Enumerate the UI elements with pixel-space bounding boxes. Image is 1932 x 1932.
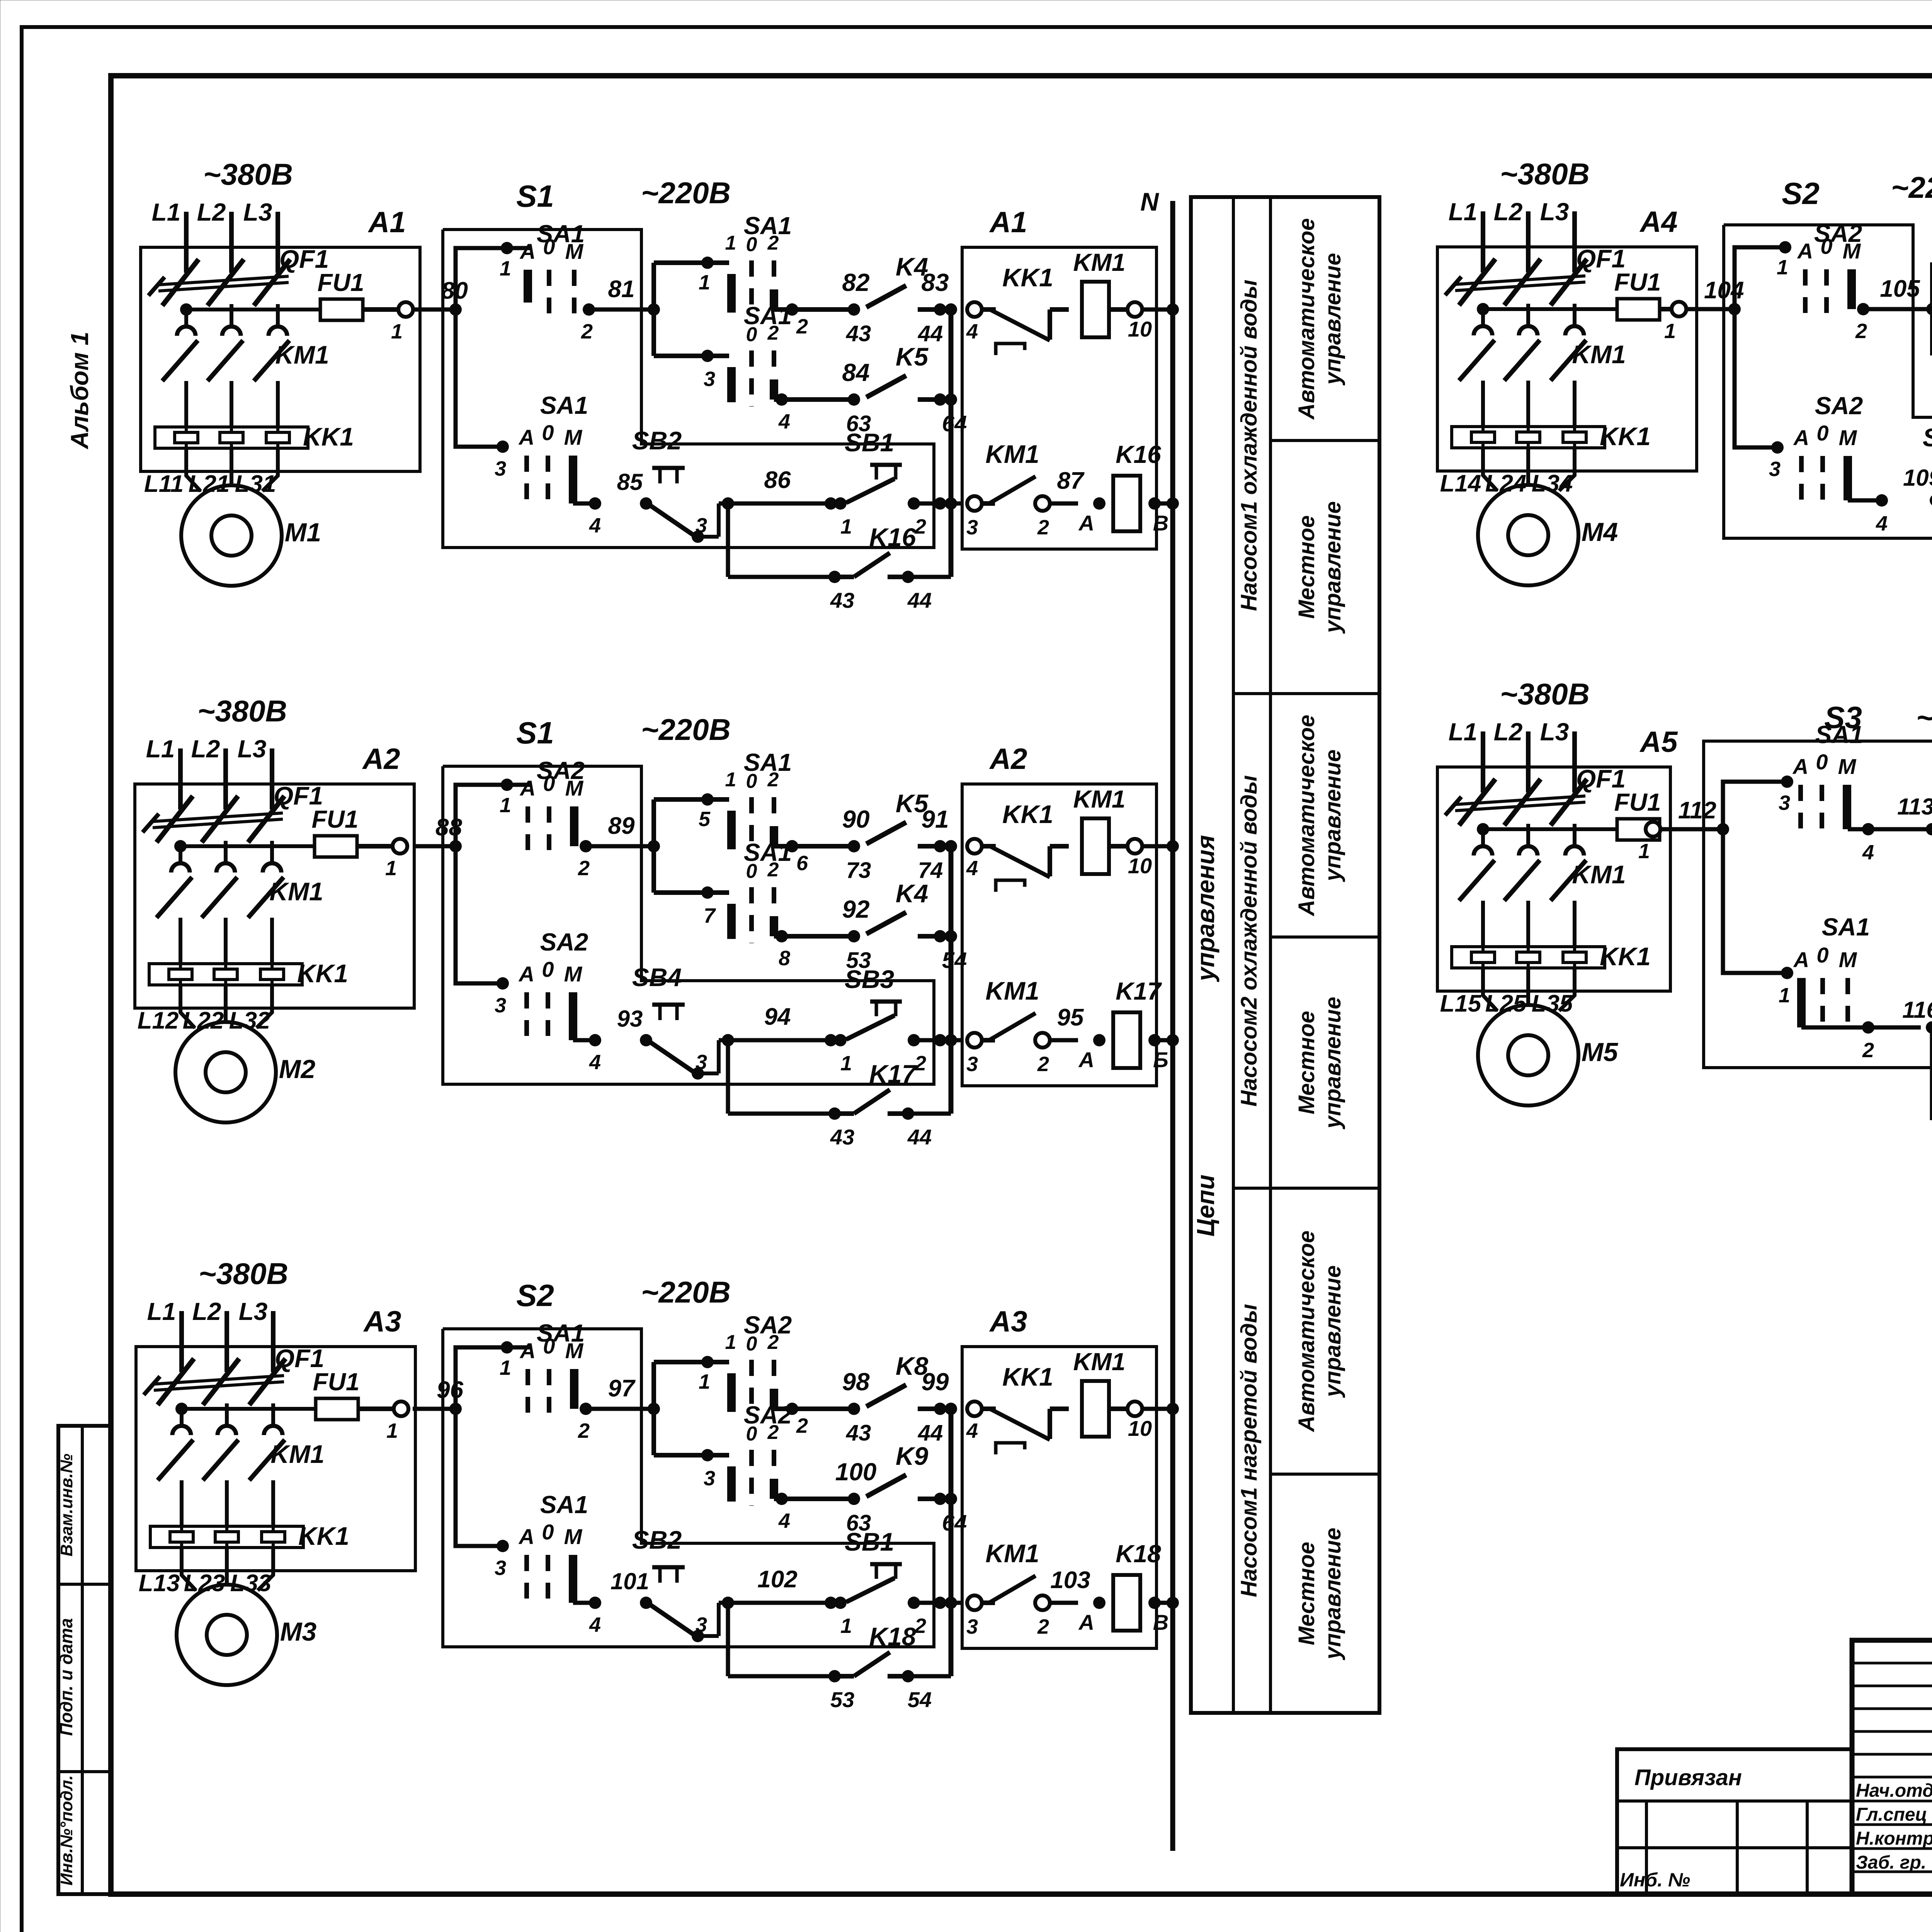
svg-text:84: 84	[842, 359, 869, 386]
svg-text:1: 1	[500, 257, 511, 280]
svg-text:L2: L2	[1494, 718, 1523, 746]
svg-text:S1: S1	[516, 179, 554, 213]
svg-text:44: 44	[907, 588, 932, 612]
svg-text:~220В: ~220В	[641, 176, 731, 210]
svg-text:SA2: SA2	[744, 1311, 792, 1339]
svg-text:FU1: FU1	[1614, 268, 1661, 296]
svg-text:M: M	[1839, 425, 1857, 450]
svg-text:KK1: KK1	[1600, 942, 1651, 971]
svg-text:L24: L24	[1485, 470, 1527, 497]
svg-text:98: 98	[842, 1368, 870, 1396]
svg-text:В: В	[1153, 1610, 1168, 1634]
svg-text:~220В: ~220В	[641, 713, 731, 747]
svg-text:FU1: FU1	[313, 1368, 360, 1396]
svg-text:1: 1	[1779, 984, 1790, 1007]
svg-text:2: 2	[914, 1052, 926, 1075]
svg-text:43: 43	[830, 588, 854, 612]
svg-text:3: 3	[696, 514, 707, 537]
svg-text:Насосом1 нагретой воды: Насосом1 нагретой воды	[1236, 1304, 1262, 1597]
svg-text:1: 1	[500, 794, 511, 817]
svg-text:43: 43	[846, 321, 871, 346]
svg-text:SA1: SA1	[540, 1491, 588, 1519]
svg-text:Альбом 1: Альбом 1	[66, 332, 94, 449]
svg-text:A: A	[518, 1524, 534, 1549]
svg-text:управление: управление	[1320, 750, 1345, 883]
svg-text:SB4: SB4	[632, 963, 682, 992]
svg-text:81: 81	[608, 276, 635, 303]
svg-text:2: 2	[796, 315, 808, 338]
svg-text:86: 86	[764, 467, 791, 493]
svg-text:Б: Б	[1153, 1048, 1168, 1072]
svg-text:A2: A2	[989, 743, 1027, 776]
svg-text:KK1: KK1	[1002, 263, 1053, 292]
svg-text:M: M	[564, 962, 583, 986]
svg-text:3: 3	[704, 367, 715, 391]
svg-text:3: 3	[704, 1467, 715, 1490]
svg-text:KK1: KK1	[298, 1522, 349, 1550]
svg-text:0: 0	[542, 957, 554, 981]
svg-text:A3: A3	[363, 1305, 401, 1338]
svg-text:A2: A2	[362, 743, 400, 776]
svg-text:3: 3	[696, 1613, 707, 1636]
svg-text:SB3: SB3	[845, 965, 894, 993]
svg-text:116: 116	[1902, 997, 1932, 1023]
svg-text:L1: L1	[152, 198, 181, 226]
svg-text:4: 4	[589, 514, 601, 537]
svg-text:A1: A1	[989, 206, 1027, 239]
svg-text:M5: M5	[1582, 1037, 1619, 1067]
svg-text:Насосом1 охлажденной воды: Насосом1 охлажденной воды	[1236, 280, 1262, 611]
svg-text:Автоматическое: Автоматическое	[1294, 715, 1319, 917]
svg-text:~380В: ~380В	[203, 157, 293, 191]
svg-text:97: 97	[608, 1375, 636, 1402]
svg-text:L1: L1	[1449, 198, 1478, 226]
svg-text:SA2: SA2	[744, 1401, 792, 1429]
svg-text:управление: управление	[1320, 997, 1345, 1130]
svg-text:KM1: KM1	[1073, 785, 1125, 813]
svg-text:0: 0	[1816, 750, 1828, 774]
svg-text:8: 8	[779, 947, 790, 970]
svg-text:101: 101	[611, 1568, 649, 1594]
svg-text:M2: M2	[279, 1054, 316, 1084]
svg-text:управления: управления	[1192, 835, 1219, 982]
svg-text:M1: M1	[285, 518, 321, 547]
svg-text:1: 1	[1664, 320, 1676, 343]
svg-text:1: 1	[840, 1614, 852, 1638]
svg-text:M: M	[1839, 947, 1857, 972]
svg-text:L33: L33	[230, 1570, 272, 1597]
svg-text:A1: A1	[367, 206, 406, 239]
svg-text:L1: L1	[147, 1298, 176, 1325]
svg-text:113: 113	[1897, 794, 1932, 820]
svg-text:1: 1	[725, 1331, 736, 1354]
svg-text:SA1: SA1	[1815, 721, 1864, 748]
svg-text:L23: L23	[184, 1570, 225, 1597]
svg-text:A4: A4	[1639, 206, 1677, 238]
svg-text:4: 4	[589, 1613, 601, 1636]
svg-text:1: 1	[699, 271, 710, 294]
svg-text:112: 112	[1678, 797, 1716, 824]
svg-text:управление: управление	[1320, 1265, 1345, 1398]
svg-text:A: A	[518, 962, 534, 986]
svg-text:SA1: SA1	[744, 748, 792, 776]
svg-text:0: 0	[542, 420, 554, 445]
svg-text:3: 3	[966, 1053, 978, 1076]
svg-text:1: 1	[725, 232, 736, 254]
svg-text:KM1: KM1	[1073, 248, 1125, 276]
svg-text:управление: управление	[1320, 1528, 1345, 1661]
svg-text:4: 4	[589, 1051, 601, 1074]
svg-text:A: A	[519, 776, 536, 800]
svg-text:2: 2	[581, 320, 593, 343]
svg-text:2: 2	[796, 1414, 808, 1437]
svg-text:Подп. и дата: Подп. и дата	[56, 1618, 76, 1736]
svg-text:L3: L3	[243, 198, 272, 226]
svg-text:2: 2	[1037, 1053, 1049, 1076]
svg-text:K5: K5	[896, 342, 929, 371]
svg-text:A: A	[1792, 754, 1808, 779]
svg-text:0: 0	[1816, 421, 1828, 445]
svg-text:L1: L1	[1449, 718, 1478, 746]
svg-text:KK1: KK1	[1600, 422, 1651, 451]
svg-text:Местное: Местное	[1294, 515, 1319, 619]
svg-text:4: 4	[966, 857, 978, 880]
svg-text:A: A	[1797, 239, 1813, 263]
svg-text:102: 102	[757, 1566, 797, 1593]
svg-text:0: 0	[1816, 943, 1828, 967]
svg-text:KM1: KM1	[270, 1440, 324, 1468]
svg-text:93: 93	[617, 1006, 643, 1032]
svg-text:управление: управление	[1320, 501, 1345, 634]
svg-text:3: 3	[966, 516, 978, 539]
svg-text:L21: L21	[189, 471, 230, 497]
svg-text:99: 99	[921, 1368, 949, 1396]
svg-text:SA2: SA2	[1815, 392, 1863, 420]
svg-text:K18: K18	[1116, 1540, 1161, 1568]
svg-text:91: 91	[921, 805, 949, 833]
svg-text:96: 96	[437, 1377, 463, 1403]
svg-text:10: 10	[1128, 1416, 1152, 1440]
svg-text:10: 10	[1128, 854, 1152, 878]
svg-text:L3: L3	[238, 735, 267, 763]
svg-text:A: A	[518, 425, 534, 449]
svg-text:~220В: ~220В	[1916, 701, 1932, 735]
svg-text:A: A	[1078, 1048, 1094, 1072]
svg-text:В: В	[1153, 511, 1168, 535]
svg-text:L1: L1	[146, 735, 175, 763]
svg-text:6: 6	[796, 852, 808, 875]
svg-text:SA1: SA1	[744, 212, 792, 240]
svg-text:Инв.№°подл.: Инв.№°подл.	[57, 1775, 76, 1886]
svg-text:S2: S2	[516, 1278, 554, 1313]
svg-text:KM1: KM1	[985, 976, 1039, 1005]
svg-text:L32: L32	[229, 1007, 270, 1034]
svg-text:L2: L2	[1494, 198, 1523, 226]
svg-text:3: 3	[495, 457, 506, 480]
svg-text:1: 1	[840, 515, 852, 538]
svg-text:3: 3	[495, 1556, 506, 1580]
svg-text:M: M	[564, 1524, 583, 1549]
svg-text:7: 7	[704, 904, 716, 927]
svg-text:4: 4	[966, 1419, 978, 1442]
svg-text:K4: K4	[896, 879, 928, 908]
svg-text:L3: L3	[1540, 198, 1569, 226]
svg-text:A: A	[1793, 947, 1809, 972]
svg-text:L2: L2	[197, 198, 226, 226]
svg-text:SB2: SB2	[632, 426, 682, 455]
svg-text:Привязан: Привязан	[1634, 1765, 1742, 1790]
svg-text:A: A	[519, 239, 536, 264]
svg-text:1: 1	[725, 769, 736, 791]
svg-text:SA1: SA1	[744, 302, 792, 330]
svg-text:S1: S1	[516, 716, 554, 750]
svg-text:3: 3	[966, 1615, 978, 1638]
svg-text:Местное: Местное	[1294, 1011, 1319, 1114]
svg-text:L22: L22	[183, 1007, 224, 1034]
svg-text:A3: A3	[989, 1305, 1027, 1338]
svg-text:SB1: SB1	[845, 1527, 894, 1556]
svg-text:Взам.инв.№: Взам.инв.№	[57, 1454, 76, 1556]
svg-text:SA1: SA1	[1822, 913, 1870, 941]
svg-text:4: 4	[1876, 512, 1888, 535]
svg-text:Автоматическое: Автоматическое	[1294, 1231, 1319, 1433]
svg-text:Заб. гр.: Заб. гр.	[1856, 1852, 1926, 1873]
svg-text:2: 2	[1855, 320, 1867, 343]
svg-text:43: 43	[830, 1125, 854, 1149]
svg-text:5: 5	[699, 808, 711, 831]
svg-text:FU1: FU1	[312, 805, 359, 833]
svg-text:~380В: ~380В	[197, 694, 287, 728]
svg-text:SB1: SB1	[845, 428, 894, 457]
svg-text:S2: S2	[1782, 176, 1820, 211]
svg-text:SA2: SA2	[540, 928, 588, 956]
svg-text:53: 53	[830, 1687, 854, 1712]
svg-text:SA1: SA1	[537, 220, 585, 248]
svg-text:KM1: KM1	[985, 440, 1039, 468]
svg-text:2: 2	[1037, 516, 1049, 539]
svg-text:SA1: SA1	[537, 1319, 585, 1347]
svg-text:Автоматическое: Автоматическое	[1294, 218, 1319, 420]
svg-text:2: 2	[914, 1614, 926, 1638]
svg-text:A: A	[1793, 425, 1809, 450]
svg-text:A: A	[1078, 1610, 1094, 1634]
svg-text:M: M	[1838, 754, 1857, 779]
svg-text:SA2: SA2	[537, 757, 585, 784]
svg-text:1: 1	[385, 857, 397, 880]
svg-text:K18: K18	[869, 1622, 916, 1651]
svg-text:FU1: FU1	[318, 269, 364, 296]
svg-text:SA2: SA2	[1814, 219, 1862, 247]
svg-text:94: 94	[764, 1003, 791, 1030]
svg-text:1: 1	[699, 1370, 710, 1393]
svg-text:Гл.спец: Гл.спец	[1856, 1804, 1927, 1825]
svg-text:L35: L35	[1532, 990, 1573, 1017]
svg-text:2: 2	[1037, 1615, 1049, 1638]
svg-text:2: 2	[1862, 1039, 1874, 1062]
svg-text:92: 92	[842, 895, 869, 923]
svg-text:1: 1	[1777, 256, 1788, 279]
svg-text:M4: M4	[1582, 517, 1618, 547]
svg-text:54: 54	[908, 1687, 932, 1712]
svg-text:89: 89	[608, 813, 635, 839]
svg-text:4: 4	[778, 1509, 790, 1532]
svg-text:KM1: KM1	[1073, 1348, 1125, 1376]
svg-text:87: 87	[1057, 468, 1085, 494]
svg-text:SB4: SB4	[1923, 423, 1932, 452]
svg-text:4: 4	[966, 320, 978, 343]
svg-text:L11: L11	[144, 471, 184, 497]
svg-text:100: 100	[835, 1458, 877, 1486]
svg-text:3: 3	[1779, 791, 1790, 815]
svg-text:1: 1	[386, 1419, 398, 1442]
svg-text:M: M	[564, 425, 583, 449]
svg-text:88: 88	[435, 814, 462, 841]
svg-text:2: 2	[914, 515, 926, 538]
svg-text:105: 105	[1880, 276, 1920, 302]
svg-text:L12: L12	[138, 1007, 179, 1034]
svg-text:L13: L13	[139, 1570, 180, 1597]
svg-text:KM1: KM1	[269, 877, 323, 906]
svg-text:Местное: Местное	[1294, 1542, 1319, 1645]
svg-text:1: 1	[1638, 840, 1650, 863]
svg-text:KK1: KK1	[303, 422, 354, 451]
svg-text:85: 85	[617, 469, 643, 495]
svg-text:~380В: ~380В	[199, 1257, 288, 1291]
svg-text:Нач.отд.: Нач.отд.	[1856, 1781, 1932, 1801]
svg-text:2: 2	[578, 1419, 590, 1442]
svg-text:L14: L14	[1440, 470, 1481, 497]
svg-text:90: 90	[842, 805, 869, 833]
svg-text:1: 1	[391, 320, 403, 343]
svg-text:L25: L25	[1485, 990, 1527, 1017]
svg-text:FU1: FU1	[1614, 788, 1661, 816]
svg-text:K17: K17	[1116, 977, 1162, 1005]
svg-text:1: 1	[500, 1356, 511, 1379]
svg-text:0: 0	[542, 1520, 554, 1544]
svg-text:L31: L31	[235, 471, 276, 497]
svg-text:K16: K16	[1116, 440, 1161, 468]
svg-text:K9: K9	[896, 1442, 929, 1470]
svg-text:109: 109	[1903, 465, 1932, 491]
svg-text:3: 3	[1769, 457, 1781, 481]
svg-text:KM1: KM1	[275, 340, 329, 369]
svg-text:10: 10	[1128, 317, 1152, 341]
svg-text:A5: A5	[1639, 726, 1678, 759]
svg-text:44: 44	[907, 1125, 932, 1149]
svg-text:L15: L15	[1440, 990, 1482, 1017]
svg-text:управление: управление	[1320, 253, 1345, 386]
svg-text:~380В: ~380В	[1500, 677, 1590, 711]
svg-text:83: 83	[921, 269, 949, 296]
svg-text:L3: L3	[239, 1298, 268, 1325]
svg-text:3: 3	[495, 994, 506, 1017]
svg-text:A: A	[519, 1338, 536, 1363]
svg-text:82: 82	[842, 269, 869, 296]
svg-text:73: 73	[846, 858, 871, 883]
svg-text:KK1: KK1	[297, 959, 348, 988]
svg-text:~220В: ~220В	[641, 1275, 731, 1309]
svg-text:95: 95	[1057, 1004, 1084, 1031]
svg-text:M3: M3	[280, 1617, 317, 1646]
svg-text:4: 4	[1862, 841, 1874, 864]
svg-text:L34: L34	[1532, 470, 1573, 497]
svg-text:SA1: SA1	[540, 391, 588, 419]
svg-text:4: 4	[778, 410, 790, 433]
svg-text:L2: L2	[191, 735, 220, 763]
svg-text:SB2: SB2	[632, 1526, 682, 1554]
svg-text:Инб. №: Инб. №	[1620, 1869, 1690, 1891]
svg-text:KM1: KM1	[985, 1539, 1039, 1568]
svg-text:K17: K17	[869, 1060, 917, 1088]
svg-text:L2: L2	[192, 1298, 221, 1325]
svg-text:~220В: ~220В	[1891, 170, 1932, 204]
svg-text:Насосом2 охлажденной воды: Насосом2 охлажденной воды	[1236, 775, 1262, 1107]
svg-text:Цепи: Цепи	[1192, 1175, 1219, 1236]
svg-text:2: 2	[578, 857, 590, 880]
svg-text:SA1: SA1	[744, 838, 792, 866]
svg-text:1: 1	[840, 1052, 852, 1075]
svg-text:KM1: KM1	[1572, 860, 1626, 889]
svg-text:KK1: KK1	[1002, 1362, 1053, 1391]
svg-text:K16: K16	[869, 523, 916, 551]
svg-text:103: 103	[1050, 1567, 1090, 1594]
svg-text:~380В: ~380В	[1500, 157, 1590, 191]
svg-text:A: A	[1078, 511, 1094, 535]
svg-text:Н.контр.: Н.контр.	[1856, 1828, 1932, 1849]
svg-text:3: 3	[696, 1051, 707, 1074]
svg-text:N: N	[1140, 187, 1159, 216]
svg-text:KM1: KM1	[1572, 340, 1626, 369]
svg-text:L3: L3	[1540, 718, 1569, 746]
svg-text:KK1: KK1	[1002, 800, 1053, 828]
svg-text:43: 43	[846, 1420, 871, 1446]
